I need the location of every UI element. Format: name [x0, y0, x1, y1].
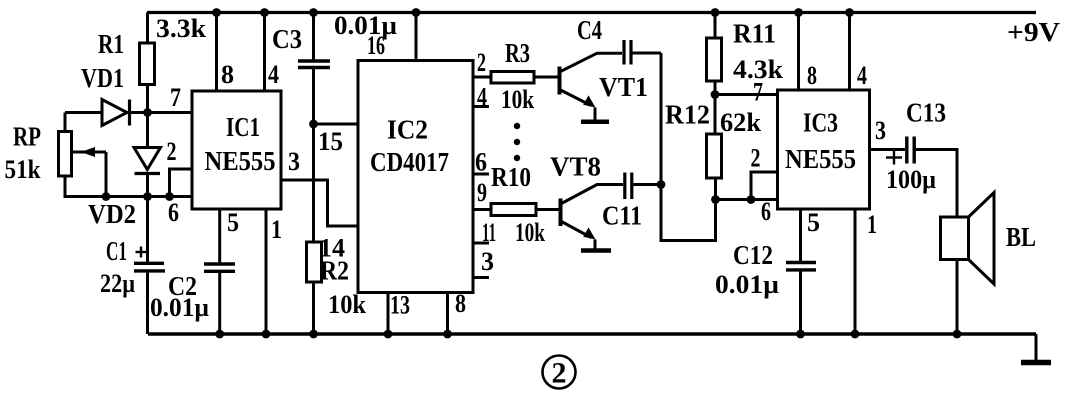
wire pin 6 IC3 — [716, 198, 778, 201]
wire C2 bottom — [218, 272, 221, 334]
svg-text:R11: R11 — [733, 19, 776, 49]
svg-text:1: 1 — [867, 210, 877, 239]
svg-text:0.01µ: 0.01µ — [150, 293, 209, 322]
svg-text:9: 9 — [477, 178, 487, 207]
svg-text:11: 11 — [482, 218, 496, 247]
capacitor C13 — [907, 137, 914, 164]
capacitor C1 — [134, 263, 165, 271]
wire IC3 pin 8 — [797, 13, 800, 91]
diode VD1 — [102, 100, 130, 126]
ground VT1 emitter — [581, 108, 609, 122]
wire pin 6 IC1 — [148, 195, 193, 198]
wire IC1 pin 4 — [263, 13, 266, 92]
wire IC2 pin 9 to R10 — [473, 208, 491, 211]
resistor R1 — [140, 43, 155, 85]
node pin8 IC2 rail junction — [443, 330, 452, 339]
wire C11 to coupling node — [633, 183, 661, 186]
svg-text:NE555: NE555 — [785, 144, 856, 174]
node pin4 IC3 rail junction — [845, 8, 854, 17]
resistor R10 — [491, 204, 536, 216]
transistor VT1 — [560, 53, 623, 107]
svg-text:R10: R10 — [491, 162, 531, 192]
node pin7 junction IC3 — [711, 90, 720, 99]
node BL rail junction — [953, 330, 962, 339]
C1 polarity plus — [136, 247, 147, 258]
node pin2 pin6 junction — [165, 192, 174, 201]
svg-text:5: 5 — [807, 208, 820, 237]
wire R1 top — [146, 13, 149, 44]
capacitor C11 — [625, 173, 632, 200]
svg-text:IC1: IC1 — [226, 112, 260, 142]
IC3 NE555 box — [778, 90, 870, 209]
svg-text:10k: 10k — [328, 290, 366, 319]
node pin1 rail junction — [262, 330, 271, 339]
wire IC3 pin 4 — [848, 13, 851, 91]
svg-text:7: 7 — [753, 78, 763, 107]
wire IC3 pin 1 — [854, 209, 857, 334]
node C2 rail junction — [215, 330, 224, 339]
wire C1 bottom — [146, 272, 149, 334]
svg-text:6: 6 — [761, 197, 771, 226]
svg-text:2: 2 — [477, 48, 486, 77]
svg-text:RP: RP — [13, 122, 41, 152]
wire C13 to BL — [916, 150, 958, 218]
node C12 rail junction — [796, 330, 805, 339]
svg-text:BL: BL — [1006, 222, 1036, 252]
pin stub 4 IC2 — [473, 105, 489, 108]
wire coupling node to R12 bottom — [661, 53, 716, 241]
resistor R12 — [707, 134, 722, 178]
capacitor C3 — [298, 61, 330, 68]
wire IC3 pin 3 to C13 — [870, 148, 906, 151]
wire VD2 anode — [146, 113, 149, 148]
wire IC2 pin 2 to R3 — [473, 76, 491, 79]
svg-text:4: 4 — [857, 61, 867, 90]
svg-text:4: 4 — [268, 60, 279, 89]
resistor R2 — [307, 242, 322, 282]
svg-text:R1: R1 — [98, 29, 124, 59]
node C3 rail junction — [309, 8, 318, 17]
wire VD1 anode — [65, 111, 102, 114]
svg-text:VD2: VD2 — [88, 199, 136, 229]
svg-text:62k: 62k — [720, 108, 762, 137]
wire BL bottom — [956, 260, 959, 335]
wire IC1 pin 1 — [265, 209, 268, 334]
wire IC2 pin 13 — [387, 293, 390, 335]
svg-text:VT8: VT8 — [550, 152, 601, 182]
wire C12 bottom — [799, 271, 802, 335]
capacitor C2 — [204, 264, 235, 271]
node R2 rail junction — [309, 330, 318, 339]
wire pin 2 step IC3 — [751, 172, 778, 200]
wire RP bottom — [65, 176, 148, 197]
wire pin 7 IC3 — [715, 93, 778, 96]
wire IC1 pin 5 — [218, 209, 221, 263]
svg-text:VD1: VD1 — [81, 63, 124, 93]
wire pin 7 IC1 — [130, 111, 193, 114]
node pin16 rail junction — [412, 8, 421, 17]
pin stub 11 IC2 — [473, 242, 489, 245]
resistor R11 — [707, 38, 722, 81]
node pin8 rail junction — [212, 8, 221, 17]
svg-text:C4: C4 — [577, 15, 602, 45]
svg-text:C13: C13 — [906, 98, 946, 128]
wire VD2 cathode — [146, 174, 149, 197]
node VD2 cathode junction — [143, 192, 152, 201]
svg-text:3: 3 — [481, 247, 494, 276]
wire C3 to R2 — [312, 68, 315, 242]
wire R1 bottom — [146, 85, 149, 114]
ground symbol right — [1021, 334, 1051, 363]
wire R11 top — [714, 13, 717, 39]
node pin2 step junction — [747, 195, 756, 204]
svg-text:2: 2 — [751, 144, 761, 173]
wire IC2 pin 16 — [415, 13, 418, 61]
wire C4 to coupling node — [633, 52, 662, 55]
node C11 junction — [657, 180, 666, 189]
svg-text:VT1: VT1 — [599, 72, 648, 102]
figure number 2 circled — [543, 356, 576, 390]
IC1 NE555 box — [192, 91, 281, 209]
pin stub 6 IC2 — [473, 173, 489, 176]
wire RP top — [64, 113, 67, 132]
svg-text:10k: 10k — [515, 218, 545, 247]
node pin15 junction — [309, 120, 318, 129]
wire +9V top supply rail — [147, 11, 1036, 14]
wire pin 15 IC2 — [314, 123, 359, 126]
wire IC3 pin 5 — [799, 209, 802, 261]
svg-text:C12: C12 — [733, 240, 773, 270]
svg-text:0.01µ: 0.01µ — [334, 11, 397, 40]
RP wiper arrow — [72, 147, 107, 157]
svg-text:0.01µ: 0.01µ — [715, 270, 779, 299]
speaker BL — [941, 193, 995, 285]
pin stub 3 IC2 — [473, 276, 489, 279]
svg-text:5: 5 — [227, 208, 239, 237]
svg-text:6: 6 — [475, 148, 487, 177]
potentiometer RP — [59, 132, 72, 177]
svg-text:+9V: +9V — [1007, 17, 1061, 47]
wire C1 top — [146, 197, 149, 262]
node pin1 IC3 rail junction — [851, 330, 860, 339]
svg-text:8: 8 — [221, 60, 234, 89]
svg-text:13: 13 — [390, 291, 410, 320]
ellipsis dots between outputs — [514, 123, 520, 161]
svg-text:2: 2 — [552, 357, 567, 390]
svg-text:100µ: 100µ — [886, 165, 936, 194]
wire R11 to R12 — [714, 81, 717, 134]
wire ground bottom rail — [148, 332, 1036, 335]
svg-text:R2: R2 — [320, 256, 349, 286]
svg-text:2: 2 — [167, 137, 177, 166]
svg-text:22µ: 22µ — [100, 269, 135, 298]
node pin2 pin6 branch junction — [711, 195, 720, 204]
svg-text:6: 6 — [168, 198, 179, 227]
svg-text:C1: C1 — [106, 236, 127, 266]
wire wiper down — [105, 152, 108, 197]
svg-text:3: 3 — [288, 147, 300, 176]
C13 polarity plus — [886, 151, 902, 165]
wire IC2 pin 8 — [446, 293, 449, 335]
svg-text:NE555: NE555 — [205, 146, 276, 176]
svg-text:8: 8 — [455, 289, 466, 318]
svg-text:1: 1 — [271, 215, 282, 244]
capacitor C12 — [786, 263, 816, 270]
node R11 rail junction — [711, 8, 720, 17]
wire R3 to VT1 base — [534, 76, 558, 79]
node pin4 rail junction — [260, 8, 269, 17]
svg-text:C11: C11 — [602, 201, 642, 231]
svg-text:C3: C3 — [272, 24, 302, 54]
capacitor C4 — [624, 40, 631, 65]
svg-text:3: 3 — [875, 116, 886, 145]
svg-text:4: 4 — [477, 83, 487, 112]
svg-text:3.3k: 3.3k — [156, 14, 207, 43]
svg-text:CD4017: CD4017 — [370, 147, 449, 177]
wire pin 2 step IC1 — [170, 169, 193, 197]
svg-text:7: 7 — [170, 83, 181, 112]
svg-text:R3: R3 — [505, 38, 530, 68]
svg-text:15: 15 — [318, 127, 343, 156]
node pin13 rail junction — [384, 330, 393, 339]
transistor VT8 — [561, 185, 624, 240]
wire C3 top — [312, 13, 315, 61]
wire IC1 pin 8 — [215, 13, 218, 92]
wire R2 bottom — [312, 282, 315, 334]
svg-text:10k: 10k — [501, 85, 534, 114]
diode VD2 — [134, 148, 161, 174]
svg-text:16: 16 — [367, 31, 385, 60]
ground VT8 emitter — [581, 240, 611, 251]
node wiper junction — [102, 192, 111, 201]
svg-text:8: 8 — [807, 61, 817, 90]
svg-text:51k: 51k — [5, 155, 41, 184]
resistor R3 — [491, 72, 534, 84]
IC2 CD4017 box — [358, 61, 473, 293]
svg-text:IC3: IC3 — [803, 108, 838, 138]
svg-text:IC2: IC2 — [387, 115, 428, 145]
svg-text:R12: R12 — [665, 100, 710, 130]
node pin8 IC3 rail junction — [794, 8, 803, 17]
wire IC1 pin3 to IC2 pin14 — [281, 180, 358, 226]
node junction R1 VD1 pin7 — [143, 108, 152, 117]
wire R10 to VT8 base — [536, 208, 559, 211]
